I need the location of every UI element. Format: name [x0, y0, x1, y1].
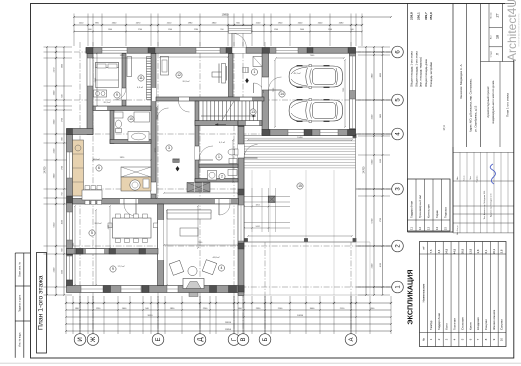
svg-text:7,5: 7,5 — [429, 249, 433, 253]
svg-text:4100: 4100 — [380, 263, 382, 267]
terrace deck — [243, 134, 370, 295]
svg-text:индивидуального жилого дома: индивидуального жилого дома — [491, 80, 495, 123]
svg-text:15: 15 — [443, 227, 447, 231]
svg-text:9020: 9020 — [148, 315, 154, 317]
svg-text:750: 750 — [62, 192, 64, 195]
svg-text:3,8: 3,8 — [476, 249, 480, 253]
svg-text:Гостиная: Гостиная — [453, 318, 457, 330]
svg-text:14: 14 — [280, 92, 284, 96]
svg-text:6,1: 6,1 — [484, 249, 488, 253]
svg-text:1500: 1500 — [328, 29, 332, 31]
left margin attribute strips — [15, 253, 30, 358]
svg-text:Гардеробная: Гардеробная — [437, 313, 441, 330]
svg-text:Д: Д — [198, 337, 204, 341]
vestibule interior — [243, 57, 264, 94]
svg-text:320 1: 320 1 — [256, 205, 261, 207]
svg-text:Общая площадь 1-ого этажа: Общая площадь 1-ого этажа — [415, 51, 419, 87]
svg-text:План 1-ого этажа: План 1-ого этажа — [38, 275, 45, 330]
hall details — [173, 159, 210, 192]
svg-text:Подпись и дата: Подпись и дата — [18, 294, 21, 312]
svg-text:м²: м² — [422, 247, 425, 250]
right dimension lines — [358, 46, 390, 296]
svg-text:18810: 18810 — [225, 322, 232, 324]
svg-text:20,9 м²: 20,9 м² — [182, 80, 189, 83]
svg-text:14: 14 — [435, 227, 439, 231]
svg-text:Лист: Лист — [490, 35, 492, 39]
bathroom10 fixtures — [114, 112, 150, 142]
svg-text:24,8 м²: 24,8 м² — [172, 158, 179, 161]
svg-text:600: 600 — [88, 29, 91, 31]
svg-text:Гардеробная: Гардеробная — [409, 201, 413, 218]
title block column lines — [408, 4, 481, 233]
svg-text:13: 13 — [426, 227, 430, 231]
area summary table — [410, 12, 447, 131]
svg-text:5700: 5700 — [380, 218, 382, 222]
svg-text:№: № — [422, 338, 425, 341]
west walls — [67, 54, 94, 287]
interior door arcs — [124, 97, 230, 216]
svg-text:1200: 1200 — [168, 29, 172, 31]
svg-text:2: 2 — [221, 175, 223, 179]
svg-text:256,1: 256,1 — [417, 12, 421, 20]
svg-text:Листов: Листов — [490, 12, 492, 18]
svg-text:238,8: 238,8 — [410, 12, 414, 20]
svg-text:Изм. Кол.уч.: Изм. Кол.уч. — [457, 225, 459, 235]
svg-text:944 1: 944 1 — [256, 226, 261, 228]
svg-text:Холл: Холл — [445, 323, 449, 330]
svg-text:45,1 м²: 45,1 м² — [293, 72, 300, 75]
svg-text:Architect4U: Architect4U — [505, 0, 519, 61]
svg-text:900: 900 — [350, 29, 353, 31]
wardrobe shelving room11 — [127, 57, 151, 100]
garage door — [262, 77, 282, 90]
svg-text:Терраса: Терраса — [443, 207, 447, 218]
svg-text:27: 27 — [496, 14, 500, 18]
svg-text:20,3: 20,3 — [492, 248, 496, 254]
room table 11-15 — [408, 179, 451, 231]
axis center lines — [74, 42, 392, 334]
explication table — [420, 242, 507, 347]
svg-text:13,8: 13,8 — [468, 248, 472, 254]
garage walls — [262, 53, 356, 135]
svg-text:И: И — [78, 337, 84, 341]
svg-text:4200: 4200 — [62, 220, 64, 224]
svg-text:Адрес: МО, д.Балашиха, мкр. Са: Адрес: МО, д.Балашиха, мкр. Салтыковка, — [469, 78, 473, 132]
svg-text:19850: 19850 — [222, 14, 229, 17]
svg-text:1: 1 — [254, 70, 256, 74]
svg-text:44,8 м²: 44,8 м² — [212, 256, 219, 259]
svg-text:26,8: 26,8 — [460, 248, 464, 254]
svg-text:15: 15 — [298, 184, 302, 188]
svg-text:Кухня: Кухня — [468, 322, 472, 330]
sofa upper living — [167, 210, 211, 236]
east wall — [238, 121, 258, 296]
svg-text:Архитектор Лебедев О.Э.: Архитектор Лебедев О.Э. — [489, 193, 492, 217]
svg-text:Заказчик: Медведев А. А.: Заказчик: Медведев А. А. — [459, 63, 463, 99]
stage list cells — [481, 4, 514, 62]
project name block — [486, 62, 510, 148]
svg-text:11: 11 — [139, 76, 143, 80]
staircase — [199, 101, 262, 121]
signature area — [453, 147, 514, 235]
svg-text:11: 11 — [409, 227, 413, 230]
customer and address — [459, 63, 478, 132]
svg-text:26,8 м²: 26,8 м² — [94, 222, 101, 225]
svg-text:План 1-ого этажа: План 1-ого этажа — [506, 93, 510, 117]
svg-text:17,2 м²: 17,2 м² — [117, 265, 124, 268]
svg-text:Архитектурный проект: Архитектурный проект — [486, 86, 490, 118]
svg-text:Кладовая: Кладовая — [476, 317, 480, 330]
svg-text:6: 6 — [98, 166, 100, 170]
svg-text:13: 13 — [251, 110, 255, 114]
svg-text:Столовая: Столовая — [460, 317, 464, 330]
entrance porch — [229, 26, 252, 48]
svg-text:Общая площадь дома: Общая площадь дома — [424, 59, 428, 87]
svg-text:950: 950 — [220, 29, 223, 31]
svg-text:ул. Серебрянка, д.13: ул. Серебрянка, д.13 — [474, 105, 478, 132]
fireplace seating — [169, 260, 216, 297]
svg-text:2700: 2700 — [62, 118, 64, 122]
svg-text:1700: 1700 — [62, 166, 64, 170]
svg-text:1200: 1200 — [274, 29, 278, 31]
svg-text:10: 10 — [129, 117, 133, 121]
svg-text:1900: 1900 — [108, 29, 112, 31]
svg-text:352,9: 352,9 — [429, 12, 433, 20]
svg-text:24,8: 24,8 — [445, 248, 449, 254]
svg-text:3300: 3300 — [62, 270, 64, 274]
svg-text:5500: 5500 — [380, 159, 382, 163]
svg-text:(вкл. площадь террасы): (вкл. площадь террасы) — [419, 57, 423, 87]
svg-text:Жилая комната: Жилая комната — [492, 309, 496, 330]
svg-text:Площадь застройки: Площадь застройки — [429, 62, 433, 87]
room area labels — [92, 72, 300, 268]
svg-text:5: 5 — [91, 231, 93, 235]
north wall — [86, 48, 356, 54]
axis bubbles bottom А-И — [74, 296, 357, 345]
svg-text:20,3 м²: 20,3 м² — [103, 101, 110, 104]
svg-text:12: 12 — [177, 73, 181, 77]
south wall — [67, 286, 245, 293]
svg-text:9: 9 — [112, 267, 114, 271]
svg-text:Лист: Лист — [470, 176, 472, 180]
svg-text:А: А — [349, 337, 355, 341]
svg-text:2400: 2400 — [300, 29, 304, 31]
plan title side box — [37, 253, 47, 354]
svg-text:600: 600 — [62, 94, 64, 97]
svg-text:Ж: Ж — [91, 336, 97, 342]
svg-text:Тов. Архитектор Лебедева Э.В.: Тов. Архитектор Лебедева Э.В. — [483, 190, 486, 219]
svg-text:10: 10 — [500, 338, 504, 342]
svg-text:44,8: 44,8 — [453, 248, 457, 254]
svg-text:17,3: 17,3 — [442, 125, 446, 131]
bed room9 — [94, 63, 119, 98]
svg-text:3,8: 3,8 — [500, 249, 504, 253]
svg-text:Санузел: Санузел — [484, 319, 488, 330]
svg-text:3: 3 — [168, 146, 170, 150]
svg-text:Санузел: Санузел — [500, 319, 504, 330]
svg-text:Наименование: Наименование — [421, 283, 425, 302]
axis bubbles right 1-6 — [356, 46, 403, 293]
svg-text:2760: 2760 — [138, 29, 142, 31]
svg-text:900: 900 — [62, 137, 64, 140]
svg-text:4800: 4800 — [380, 73, 382, 77]
svg-text:6,1 м²: 6,1 м² — [219, 141, 225, 144]
svg-text:1: 1 — [218, 155, 220, 159]
room number circles — [89, 69, 303, 272]
gym equipment room12 — [161, 57, 227, 84]
svg-text:Тренажерный зал: Тренажерный зал — [418, 195, 422, 218]
svg-text:Тамбур: Тамбур — [429, 320, 433, 330]
svg-text:3800: 3800 — [62, 64, 64, 68]
interior walls — [67, 54, 265, 286]
svg-text:Б: Б — [263, 337, 269, 341]
interior dimensions — [73, 53, 353, 286]
svg-text:Подпись: Подпись — [477, 176, 479, 183]
svg-text:4: 4 — [221, 266, 223, 270]
svg-text:Взам. инв. №: Взам. инв. № — [18, 262, 21, 277]
svg-text:10830: 10830 — [297, 315, 304, 317]
car 2 — [289, 99, 342, 123]
svg-text:Общая площадь 1-ого этажа: Общая площадь 1-ого этажа — [410, 51, 414, 87]
svg-text:Изм.: Изм. — [457, 176, 459, 180]
Architect4U logo — [505, 0, 521, 61]
svg-text:Стадия: Стадия — [490, 51, 492, 57]
left dimension lines — [44, 46, 73, 296]
svg-text:Кол.уч.: Кол.уч. — [464, 175, 466, 181]
kitchen table — [82, 186, 102, 205]
svg-text:12: 12 — [418, 227, 422, 231]
kitchen counters — [73, 140, 152, 196]
svg-text:9: 9 — [116, 93, 118, 97]
svg-text:4,4: 4,4 — [437, 249, 441, 253]
svg-text:3400: 3400 — [380, 114, 382, 118]
svg-text:800: 800 — [62, 248, 64, 251]
svg-text:4,3 м²: 4,3 м² — [137, 86, 143, 89]
svg-text:19850: 19850 — [225, 329, 232, 331]
svg-text:18: 18 — [496, 35, 500, 39]
svg-text:10400: 10400 — [297, 137, 303, 139]
bottom dimension lines — [65, 296, 392, 334]
svg-text:24700: 24700 — [363, 166, 366, 173]
svg-text:Инв. № подл.: Инв. № подл. — [18, 332, 21, 347]
svg-text:24700: 24700 — [44, 166, 47, 173]
svg-text:Е: Е — [156, 337, 162, 341]
bathroom fixtures mid — [195, 123, 238, 180]
svg-text:Гараж: Гараж — [435, 210, 439, 218]
svg-text:ЭКСПЛИКАЦИЯ: ЭКСПЛИКАЦИЯ — [406, 269, 415, 324]
top dimension lines — [73, 14, 392, 47]
paper edge shadow bottom — [0, 362, 521, 364]
svg-text:Котельная: Котельная — [426, 204, 430, 218]
svg-text:2280: 2280 — [194, 29, 198, 31]
svg-text:В: В — [241, 337, 247, 341]
svg-text:399,7: 399,7 — [424, 12, 428, 20]
dining table — [108, 214, 158, 243]
car 1 — [289, 65, 342, 89]
